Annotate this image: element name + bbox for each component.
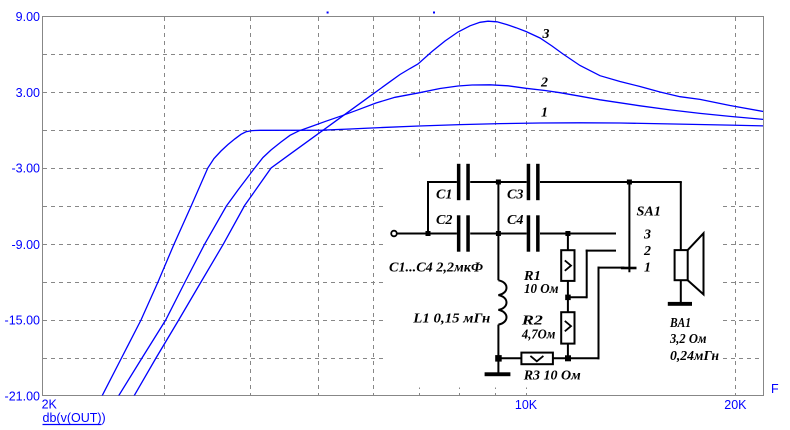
wire R2 bottom lead (567, 344, 569, 359)
wire L1 to bottom node (497, 325, 499, 359)
svg-text:C2: C2 (436, 213, 453, 228)
junction R2-R3 node (565, 355, 571, 361)
wire R1 bottom lead (567, 281, 569, 297)
svg-text:R3 10 Ом: R3 10 Ом (523, 368, 581, 383)
svg-text:R2: R2 (521, 314, 543, 329)
svg-text:10 Ом: 10 Ом (524, 282, 559, 297)
svg-text:-21.00: -21.00 (5, 389, 40, 403)
svg-text:4,7Ом: 4,7Ом (521, 328, 556, 343)
wire switch contact 1 (598, 267, 625, 269)
wire bottom row left (498, 357, 521, 359)
wire row1 right (540, 181, 682, 183)
junction SA1 top node (627, 180, 632, 185)
wire switch contact 2 (586, 250, 616, 252)
svg-text:C3: C3 (507, 187, 524, 202)
svg-text:3,2 Ом: 3,2 Ом (669, 332, 707, 347)
wire contact1 riser (598, 267, 600, 360)
marker dot B (433, 12, 435, 14)
wire R1R2 node to contact2 riser (568, 296, 587, 298)
wire bottom row right (553, 357, 600, 359)
resistor R2 (561, 312, 574, 343)
capacitor C4 (527, 215, 540, 251)
wire L1 ground stub (497, 358, 499, 373)
svg-text:C1...C4 2,2мкФ: C1...C4 2,2мкФ (389, 261, 483, 276)
junction R1 top node (565, 231, 570, 236)
svg-text:2: 2 (643, 244, 651, 259)
junction L1 bottom node (495, 355, 502, 362)
wire switch SA1 stem (628, 182, 630, 272)
wire R2 top lead (567, 297, 569, 312)
wire row1 left (427, 181, 457, 183)
wire contact2 riser (586, 250, 588, 299)
junction row1 mid node (496, 180, 501, 185)
svg-text:F: F (771, 382, 779, 396)
svg-text:-15.00: -15.00 (5, 314, 40, 328)
svg-text:C1: C1 (436, 187, 453, 202)
svg-text:20K: 20K (724, 398, 747, 412)
svg-text:db(v(OUT)): db(v(OUT)) (43, 411, 106, 425)
svg-text:C4: C4 (507, 213, 524, 228)
svg-text:9.00: 9.00 (16, 10, 40, 24)
svg-text:L1 0,15 мГн: L1 0,15 мГн (412, 312, 490, 327)
marker dot A (327, 12, 329, 14)
ground under L1 (485, 372, 511, 376)
wire row2 right to switch contact 3 (540, 233, 616, 235)
input terminal node (391, 231, 397, 237)
wire node to L1 (497, 234, 499, 281)
svg-text:1: 1 (644, 260, 651, 275)
wire input lead (397, 233, 428, 235)
junction row2 mid node (496, 231, 501, 236)
junction input node (426, 231, 431, 236)
svg-text:2K: 2K (42, 398, 58, 412)
response curves (102, 21, 764, 396)
curve 1 (102, 123, 764, 396)
ground under BA1 (668, 302, 692, 306)
svg-text:3.00: 3.00 (16, 86, 40, 100)
curve 2 (119, 85, 765, 396)
circuit background panel (384, 159, 721, 388)
junction R1-R2 node (565, 295, 571, 301)
plot gridlines horizontal (43, 55, 764, 359)
wire row2 mid (470, 233, 527, 235)
svg-text:-3.00: -3.00 (12, 162, 41, 176)
resistor R3 (521, 353, 553, 365)
resistor R1 (561, 250, 574, 281)
curve 3 (134, 21, 764, 396)
switch SA1 wiper bar (621, 267, 637, 270)
wire riser input node to row1 (427, 181, 429, 235)
svg-text:BA1: BA1 (669, 316, 691, 331)
capacitor C2 (457, 215, 470, 251)
svg-text:1: 1 (541, 106, 548, 121)
wire speaker bottom lead (680, 280, 682, 303)
plot gridlines vertical (165, 17, 736, 396)
svg-text:0,24мГн: 0,24мГн (670, 349, 719, 364)
wire speaker drop (680, 182, 682, 250)
svg-text:2: 2 (540, 76, 548, 91)
wire mid riser row1-row2 (497, 182, 499, 234)
inductor L1 coil (498, 280, 506, 324)
capacitor C1 (457, 164, 470, 200)
svg-text:SA1: SA1 (637, 204, 662, 219)
speaker BA1 (675, 233, 704, 294)
svg-text:3: 3 (542, 27, 550, 42)
wire row1 mid (470, 181, 527, 183)
svg-text:10K: 10K (515, 398, 538, 412)
svg-text:-9.00: -9.00 (12, 238, 41, 252)
svg-text:3: 3 (643, 228, 651, 243)
wire row2 left (428, 233, 457, 235)
wire R1 top lead (567, 234, 569, 251)
capacitor C3 (527, 164, 540, 200)
